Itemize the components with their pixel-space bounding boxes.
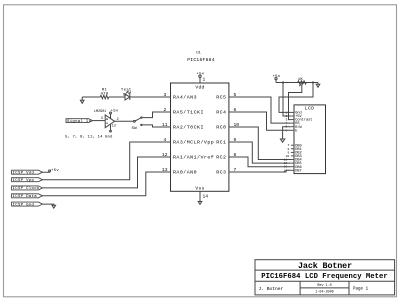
junction +5v rail / LCD pin2	[282, 81, 284, 83]
comparator LM2901	[105, 115, 114, 128]
svg-text:SW: SW	[132, 127, 138, 131]
wire R1 to D1	[109, 96, 125, 98]
svg-text:14: 14	[203, 194, 209, 200]
svg-text:RA2/T0CKI: RA2/T0CKI	[173, 124, 204, 130]
ground (R1 branch)	[80, 97, 84, 103]
svg-text:D1: D1	[123, 94, 127, 98]
switch SW	[134, 117, 143, 126]
wire LCD pin 5 R/W to ground	[283, 127, 291, 139]
wire RC5 to LCD pin 4 RS	[229, 97, 291, 123]
wire D1 to RA4 pin 3	[130, 96, 171, 98]
LCD pin numbers	[284, 110, 290, 172]
LED D1 Test	[125, 91, 130, 100]
connector ICSP Gnd	[12, 202, 43, 206]
pin number labels U1 right	[234, 92, 240, 173]
wire RC3 to LCD DB7	[229, 170, 291, 172]
svg-text:RA0/AN0: RA0/AN0	[173, 169, 197, 175]
wire switch lower throw to RA2 pin 11	[142, 125, 170, 127]
svg-text:1-04-2006: 1-04-2006	[315, 291, 333, 295]
svg-text:RC5: RC5	[216, 94, 226, 100]
wire switch upper throw to RA5 pin 2	[142, 112, 170, 118]
+5v supply (comparator)	[110, 112, 112, 119]
svg-text:ICSP Gnd: ICSP Gnd	[13, 202, 35, 207]
wire ICSP Vdd to +5v	[43, 171, 50, 173]
IC U1 PIC16F684	[171, 52, 229, 192]
svg-text:470: 470	[100, 93, 108, 97]
connector ICSP Data	[12, 194, 43, 198]
wire comparator output to switch	[115, 120, 134, 122]
LCD pin stubs 1-6	[291, 112, 294, 130]
svg-text:Rev 1.0: Rev 1.0	[317, 284, 331, 288]
svg-text:RC4: RC4	[216, 109, 226, 115]
ground (ICSP)	[52, 205, 56, 208]
svg-text:3: 3	[101, 117, 103, 121]
wire gnd rail to LCD pin 1	[279, 83, 313, 113]
ground (comparator -in)	[110, 124, 112, 132]
svg-text:RC0: RC0	[216, 124, 226, 130]
svg-text:RA3/MCLR/Vpp: RA3/MCLR/Vpp	[173, 139, 214, 145]
wire ICSP Vpp to RA3 pin 4	[43, 142, 171, 180]
LCD pin stubs 7-14	[291, 145, 294, 170]
wire RC2 to LCD DB6	[229, 157, 291, 167]
svg-text:RC1: RC1	[216, 139, 226, 145]
svg-text:Signal In: Signal In	[67, 119, 92, 124]
svg-text:LCD: LCD	[305, 106, 315, 112]
wire ICSP Clock to RA1 pin 12	[43, 157, 171, 188]
svg-text:Test: Test	[121, 89, 132, 93]
potentiometer 1K (contrast)	[298, 81, 306, 89]
svg-text:ICSP Vpp: ICSP Vpp	[13, 179, 35, 183]
wire ICSP Data to RA0 pin 13	[43, 172, 171, 196]
svg-text:U1: U1	[196, 52, 201, 56]
svg-text:Vdd: Vdd	[195, 85, 204, 91]
svg-text:RC3: RC3	[216, 169, 226, 175]
ground (Vss)	[198, 191, 202, 204]
svg-text:5, 7, 9, 11, 14 Gnd: 5, 7, 9, 11, 14 Gnd	[65, 135, 113, 140]
pin number labels U1 left	[162, 92, 168, 173]
connector Signal In	[66, 119, 93, 123]
svg-text:12: 12	[112, 125, 116, 129]
resistor R1 470	[100, 95, 108, 99]
svg-text:PIC16F684 LCD Frequency Meter: PIC16F684 LCD Frequency Meter	[261, 273, 388, 281]
svg-text:RA1/AN1/Vref: RA1/AN1/Vref	[173, 154, 214, 160]
wire +5v to LCD pin 2	[283, 83, 291, 117]
svg-text:+5v: +5v	[272, 75, 280, 79]
svg-text:RA5/T1CKI: RA5/T1CKI	[173, 109, 204, 115]
svg-text:RA4/AN3: RA4/AN3	[173, 94, 197, 100]
junction rail / gnd branch	[312, 81, 314, 83]
+5v supply (ICSP)	[49, 170, 51, 172]
wire RC0 to LCD DB4	[229, 127, 291, 160]
+5v supply (Vdd)	[199, 75, 201, 83]
svg-text:Vss: Vss	[195, 186, 204, 192]
svg-text:+5v: +5v	[196, 73, 204, 77]
svg-text:ICSP Clock: ICSP Clock	[13, 186, 40, 191]
wire RC1 to LCD DB5	[229, 142, 291, 163]
svg-text:Jack Botner: Jack Botner	[298, 261, 352, 271]
ground (LCD R/W)	[280, 139, 284, 142]
svg-text:RC2: RC2	[216, 154, 226, 160]
connector ICSP Clock	[12, 186, 43, 190]
svg-text:1K: 1K	[298, 78, 304, 82]
wire +5v rail to LCD area	[276, 82, 318, 84]
ground (LCD rail)	[316, 83, 320, 88]
wire gnd to R1	[82, 96, 100, 98]
wire RC4 to LCD pin 6 E	[229, 112, 291, 130]
svg-text:ICSP Data: ICSP Data	[13, 195, 38, 199]
LCD module connector	[294, 105, 326, 174]
svg-text:1: 1	[203, 77, 206, 83]
svg-text:Page 1: Page 1	[353, 288, 369, 292]
svg-text:DB7: DB7	[295, 169, 301, 173]
svg-text:J. Botner: J. Botner	[259, 286, 284, 292]
connector ICSP Vpp	[12, 178, 43, 182]
svg-text:+5v: +5v	[51, 169, 59, 173]
+5v supply (LCD rail)	[275, 78, 277, 83]
title block	[255, 260, 395, 295]
svg-text:ICSP Vdd: ICSP Vdd	[13, 171, 35, 176]
svg-text:LM2901: LM2901	[94, 110, 106, 114]
wire pot wiper to LCD pin 3 Contrast	[289, 89, 302, 120]
svg-text:PIC16F684: PIC16F684	[187, 57, 215, 63]
wire ICSP Gnd to ground	[43, 204, 54, 205]
svg-text:E: E	[295, 129, 297, 133]
svg-text:+5v: +5v	[111, 109, 119, 113]
wire Signal In to comparator + input	[93, 120, 106, 122]
connector ICSP Vdd	[12, 170, 43, 174]
